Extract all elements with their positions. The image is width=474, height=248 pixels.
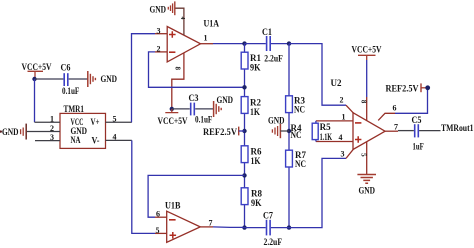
wire top to U2 pin2: [289, 44, 346, 106]
power VCC+5V top right: [352, 45, 382, 61]
capacitor C7: [263, 210, 282, 246]
wire U1B pin5 to TMR1 pin4: [132, 140, 155, 233]
resistor R5: [312, 121, 332, 142]
svg-text:2.2uF: 2.2uF: [264, 54, 283, 64]
wire junction to C6: [35, 78, 64, 80]
svg-text:1.1K: 1.1K: [320, 132, 333, 142]
svg-text:R1: R1: [250, 53, 261, 63]
svg-text:2: 2: [340, 95, 344, 104]
U2 pin 4 wire: [316, 141, 353, 143]
svg-text:R2: R2: [250, 98, 261, 108]
pin 2: [27, 131, 60, 133]
node left VCC junction: [32, 77, 36, 81]
resistor R3: [286, 96, 306, 115]
power port VCC+5V left: [22, 62, 52, 79]
svg-text:9K: 9K: [251, 198, 262, 208]
node U1A out: [242, 41, 246, 45]
svg-text:2: 2: [50, 124, 54, 133]
wire U1A pin3 to TMR1 pin5: [132, 34, 156, 123]
svg-text:1: 1: [50, 115, 54, 124]
svg-text:6: 6: [156, 210, 160, 219]
svg-text:U1A: U1A: [204, 19, 220, 29]
svg-text:GND: GND: [217, 95, 234, 105]
svg-text:8: 8: [174, 67, 182, 71]
U1A power pin 8 (bottom): [172, 53, 184, 109]
U2 pin 3 diagonal: [346, 149, 353, 158]
capacitor C1: [262, 27, 283, 63]
node R6/R8: [242, 173, 246, 177]
svg-text:C1: C1: [262, 27, 272, 37]
svg-text:R8: R8: [251, 189, 262, 199]
U2 pin 6 diagonal and wire: [378, 113, 395, 120]
op-amp U1B: [165, 200, 200, 242]
pin 4: [106, 139, 132, 141]
svg-text:NC: NC: [291, 130, 302, 140]
svg-text:NC: NC: [294, 105, 305, 115]
pin 3: [35, 140, 60, 142]
ground R4: [268, 116, 289, 139]
node C1 right: [287, 41, 291, 45]
svg-text:8: 8: [360, 100, 368, 104]
wire U1A output to node: [213, 43, 245, 45]
ground TMR1 pin 2: [0, 124, 26, 140]
svg-text:0.1uF: 0.1uF: [62, 86, 80, 96]
svg-text:TMRout1: TMRout1: [441, 123, 474, 133]
svg-text:4: 4: [339, 133, 343, 142]
svg-text:GND: GND: [2, 127, 19, 137]
svg-text:5: 5: [156, 226, 160, 235]
power port REF2.5V top right: [386, 83, 431, 93]
svg-text:9K: 9K: [250, 63, 261, 73]
ground right of C6: [88, 71, 118, 87]
svg-text:3: 3: [341, 150, 345, 159]
power port REF2.5V left: [203, 127, 245, 137]
U1B pin 7 stub: [200, 226, 213, 228]
svg-text:5: 5: [360, 153, 368, 157]
wire U1A pin2 feedback to R1/R2 node: [149, 52, 245, 87]
node bottom middle: [287, 225, 291, 229]
U1A pin 1 stub: [201, 43, 214, 45]
svg-text:3: 3: [50, 133, 54, 142]
svg-text:3: 3: [157, 27, 161, 36]
svg-text:V+: V+: [91, 117, 100, 127]
node bottom left: [242, 225, 246, 229]
pin 1: [35, 121, 61, 123]
wire C6 to ground: [69, 78, 88, 80]
svg-text:1uF: 1uF: [413, 141, 425, 151]
svg-text:REF2.5V: REF2.5V: [203, 127, 237, 137]
svg-text:6: 6: [393, 103, 397, 112]
svg-text:TMR1: TMR1: [64, 104, 85, 114]
middle column wire: [288, 44, 290, 228]
svg-text:GND: GND: [101, 74, 118, 84]
svg-text:VCC+5V: VCC+5V: [158, 116, 188, 126]
svg-text:VCC+5V: VCC+5V: [352, 45, 382, 55]
svg-text:U2: U2: [331, 78, 342, 88]
svg-text:R6: R6: [251, 147, 262, 157]
wire VCC junction down to TMR1 pin1: [34, 79, 36, 122]
svg-text:NA: NA: [71, 135, 81, 145]
U2 power pin 5: [366, 142, 368, 175]
svg-text:VCC+5V: VCC+5V: [22, 62, 52, 72]
svg-text:NC: NC: [295, 159, 306, 169]
ground above U1A: [150, 1, 175, 15]
svg-text:C5: C5: [412, 115, 422, 125]
node R1/R2 feedback: [242, 85, 246, 89]
capacitor C6: [61, 63, 80, 97]
svg-text:GND: GND: [268, 116, 285, 126]
op-amp U2: [331, 78, 386, 150]
U1A power pin 4 (top): [175, 8, 184, 35]
svg-text:GND: GND: [150, 5, 167, 15]
svg-text:REF2.5V: REF2.5V: [386, 84, 419, 94]
wire C5 to TMRout1: [419, 130, 440, 132]
svg-text:0.1uF: 0.1uF: [195, 115, 213, 125]
wire node to C1: [245, 43, 290, 45]
ground below U2: [357, 175, 376, 196]
resistor R8: [241, 188, 262, 208]
svg-text:7: 7: [209, 219, 213, 228]
U1A pin 2 stub: [155, 51, 167, 53]
svg-text:GND: GND: [359, 185, 376, 195]
resistor R7: [286, 150, 307, 169]
svg-text:1: 1: [342, 112, 346, 121]
svg-text:R5: R5: [320, 122, 331, 132]
svg-text:5: 5: [113, 115, 117, 124]
U2 pin 2 diagonal: [346, 105, 353, 113]
svg-text:1K: 1K: [251, 156, 261, 166]
U1A pin 3 stub: [155, 33, 167, 35]
U1B pin 6 stub: [155, 216, 167, 218]
svg-text:U1B: U1B: [165, 200, 181, 210]
svg-text:C3: C3: [189, 93, 199, 103]
svg-text:1: 1: [204, 34, 208, 43]
svg-text:1K: 1K: [250, 107, 260, 117]
node R2/R6 REF: [242, 129, 246, 133]
node R4: [287, 129, 291, 133]
svg-text:4: 4: [179, 17, 185, 20]
wire bottom line to C7: [245, 227, 266, 229]
wire output to C5: [398, 130, 414, 132]
wire VCC to U2 power pin 8: [366, 60, 368, 97]
svg-text:2.2uF: 2.2uF: [264, 237, 283, 247]
svg-text:4: 4: [113, 133, 117, 142]
svg-text:V-: V-: [92, 136, 100, 146]
wire junction to C3: [172, 108, 190, 110]
ground right of C3: [214, 95, 234, 117]
left column resistors wire: [244, 44, 246, 228]
svg-text:C6: C6: [61, 63, 71, 73]
wire U1B pin6 feedback: [148, 175, 244, 217]
resistor R1: [241, 52, 261, 72]
U2 power pin 8: [366, 97, 368, 121]
wire C3 to ground: [195, 108, 213, 110]
wire pin6 to REF port: [395, 90, 428, 113]
resistor R6: [241, 146, 262, 166]
IC TMR1: [60, 104, 106, 148]
U2 pin 1 wire: [316, 120, 353, 122]
svg-text:C7: C7: [263, 210, 273, 220]
resistor R4 labels: [291, 123, 302, 140]
U1B pin 5 stub: [155, 232, 167, 234]
resistor R2: [241, 97, 261, 117]
wire C7 to bottom right: [271, 158, 346, 227]
capacitor C3: [189, 93, 213, 125]
power VCC+5V below U1A: [158, 107, 188, 126]
op-amp U1A: [167, 19, 219, 62]
svg-text:7: 7: [394, 123, 398, 132]
capacitor C5: [412, 115, 425, 151]
wire U1B output to bottom line: [213, 226, 245, 229]
svg-text:2: 2: [157, 44, 161, 53]
U2 pin 7 output stub: [385, 130, 398, 132]
pin 5: [106, 121, 132, 123]
